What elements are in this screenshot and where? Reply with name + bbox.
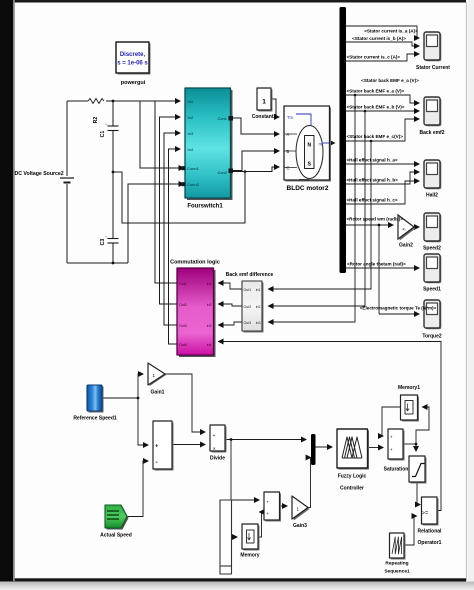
svg-text:<Stator current is_a (A)>: <Stator current is_a (A)>	[364, 29, 418, 34]
svg-text:<Stator current is_c (A)>: <Stator current is_c (A)>	[347, 55, 401, 60]
svg-text:In4: In4	[188, 147, 194, 152]
svg-text:Fuzzy Logic: Fuzzy Logic	[338, 474, 367, 480]
svg-text:Relational: Relational	[418, 529, 443, 535]
svg-text:Fourswitch1: Fourswitch1	[187, 204, 223, 210]
svg-text:Out3: Out3	[244, 321, 252, 325]
svg-text:s = 1e-06 s: s = 1e-06 s	[117, 61, 148, 67]
svg-text:in2: in2	[256, 305, 261, 309]
svg-text:Reference Speed1: Reference Speed1	[73, 416, 117, 422]
svg-text:in1: in1	[207, 282, 212, 286]
svg-text:in2: in2	[207, 303, 212, 307]
svg-text:<Hall effect signal h_c>: <Hall effect signal h_c>	[347, 198, 398, 203]
svg-text:Back emf difference: Back emf difference	[226, 272, 274, 278]
svg-text:in4: in4	[207, 343, 212, 347]
svg-text:In3: In3	[188, 131, 194, 136]
svg-text:powergui: powergui	[121, 80, 146, 86]
svg-text:Tm: Tm	[287, 115, 294, 120]
svg-text:×: ×	[213, 447, 216, 453]
svg-text:C3: C3	[100, 239, 106, 246]
svg-text:Conn2: Conn2	[187, 182, 200, 187]
svg-text:Stator Current: Stator Current	[416, 65, 450, 71]
svg-text:In2: In2	[188, 115, 194, 120]
svg-text:+: +	[390, 447, 393, 452]
svg-text:in3: in3	[256, 321, 261, 325]
svg-text:Discrete,: Discrete,	[120, 52, 146, 58]
svg-text:Out4: Out4	[179, 343, 187, 347]
svg-text:Repeating: Repeating	[385, 561, 408, 567]
svg-text:Con2: Con2	[217, 170, 227, 175]
svg-text:÷: ÷	[213, 434, 216, 440]
svg-text:Memory: Memory	[240, 553, 259, 559]
svg-text:Back emf2: Back emf2	[419, 130, 444, 136]
svg-text:Torque2: Torque2	[422, 334, 442, 340]
svg-text:Out2: Out2	[244, 305, 252, 309]
svg-text:R2: R2	[93, 117, 99, 124]
svg-text:Con1: Con1	[217, 116, 227, 121]
svg-text:<Stator back EMF e_c(V)>: <Stator back EMF e_c(V)>	[347, 134, 404, 139]
svg-text:m: m	[319, 142, 323, 147]
svg-text:Memory1: Memory1	[398, 385, 420, 391]
svg-text:N: N	[307, 143, 311, 149]
svg-text:In1: In1	[188, 99, 194, 104]
svg-text:Speed2: Speed2	[423, 246, 441, 252]
svg-text:<Stator back EMF e_a (V)>: <Stator back EMF e_a (V)>	[347, 89, 405, 94]
svg-text:Sequence1: Sequence1	[384, 569, 410, 575]
svg-text:C: C	[287, 166, 290, 171]
svg-text:Conn1: Conn1	[187, 166, 200, 171]
svg-text:B: B	[287, 149, 290, 154]
svg-text:Hall2: Hall2	[426, 193, 438, 199]
svg-text:Actual Speed: Actual Speed	[100, 533, 132, 539]
svg-text:in3: in3	[207, 324, 212, 328]
svg-text:<Electromagnetic torque Te (N*: <Electromagnetic torque Te (N*m)>	[360, 306, 437, 311]
svg-text:Gain1: Gain1	[151, 390, 165, 396]
svg-text:Divide: Divide	[210, 456, 225, 462]
svg-text:>=: >=	[422, 511, 428, 517]
svg-text:Speed1: Speed1	[423, 287, 441, 293]
svg-text:<Stator current is_b (A)>: <Stator current is_b (A)>	[352, 36, 406, 41]
svg-text:Out3: Out3	[179, 324, 187, 328]
svg-text:Out1: Out1	[244, 288, 252, 292]
svg-text:Saturation: Saturation	[384, 467, 409, 473]
svg-text:+: +	[267, 511, 270, 516]
svg-text:Out1: Out1	[179, 282, 187, 286]
svg-text:Constant2: Constant2	[252, 114, 277, 120]
svg-text:+: +	[155, 444, 158, 450]
svg-text:Operator1: Operator1	[418, 540, 442, 546]
svg-text:C1: C1	[100, 131, 106, 138]
svg-text:in1: in1	[256, 288, 261, 292]
svg-text:+: +	[267, 500, 270, 505]
svg-text:<Stator back EMF e_b (V)>: <Stator back EMF e_b (V)>	[347, 105, 405, 110]
svg-text:Controller: Controller	[340, 486, 364, 492]
svg-text:<Hall effect signal h_a>: <Hall effect signal h_a>	[347, 158, 398, 163]
svg-text:A: A	[287, 132, 290, 137]
svg-text:BLDC motor2: BLDC motor2	[287, 185, 329, 192]
svg-text:<Stator back EMF e_a (V)>: <Stator back EMF e_a (V)>	[361, 78, 419, 83]
svg-text:Out2: Out2	[179, 303, 187, 307]
svg-text:Gain3: Gain3	[293, 523, 307, 529]
svg-text:-K-: -K-	[402, 228, 407, 232]
svg-text:<Hall effect signal h_b>: <Hall effect signal h_b>	[347, 178, 399, 183]
svg-text:+: +	[390, 435, 393, 440]
svg-text:DC Voltage Source2: DC Voltage Source2	[15, 171, 64, 177]
svg-text:Commutation logic: Commutation logic	[170, 260, 220, 266]
svg-text:<Rotor speed wm (rad/s)>: <Rotor speed wm (rad/s)>	[347, 217, 404, 222]
svg-text:Gain2: Gain2	[399, 243, 413, 249]
svg-text:-: -	[156, 459, 158, 466]
svg-text:1: 1	[262, 99, 266, 106]
svg-text:<Rotor angle thetam (rad)>: <Rotor angle thetam (rad)>	[347, 262, 406, 267]
